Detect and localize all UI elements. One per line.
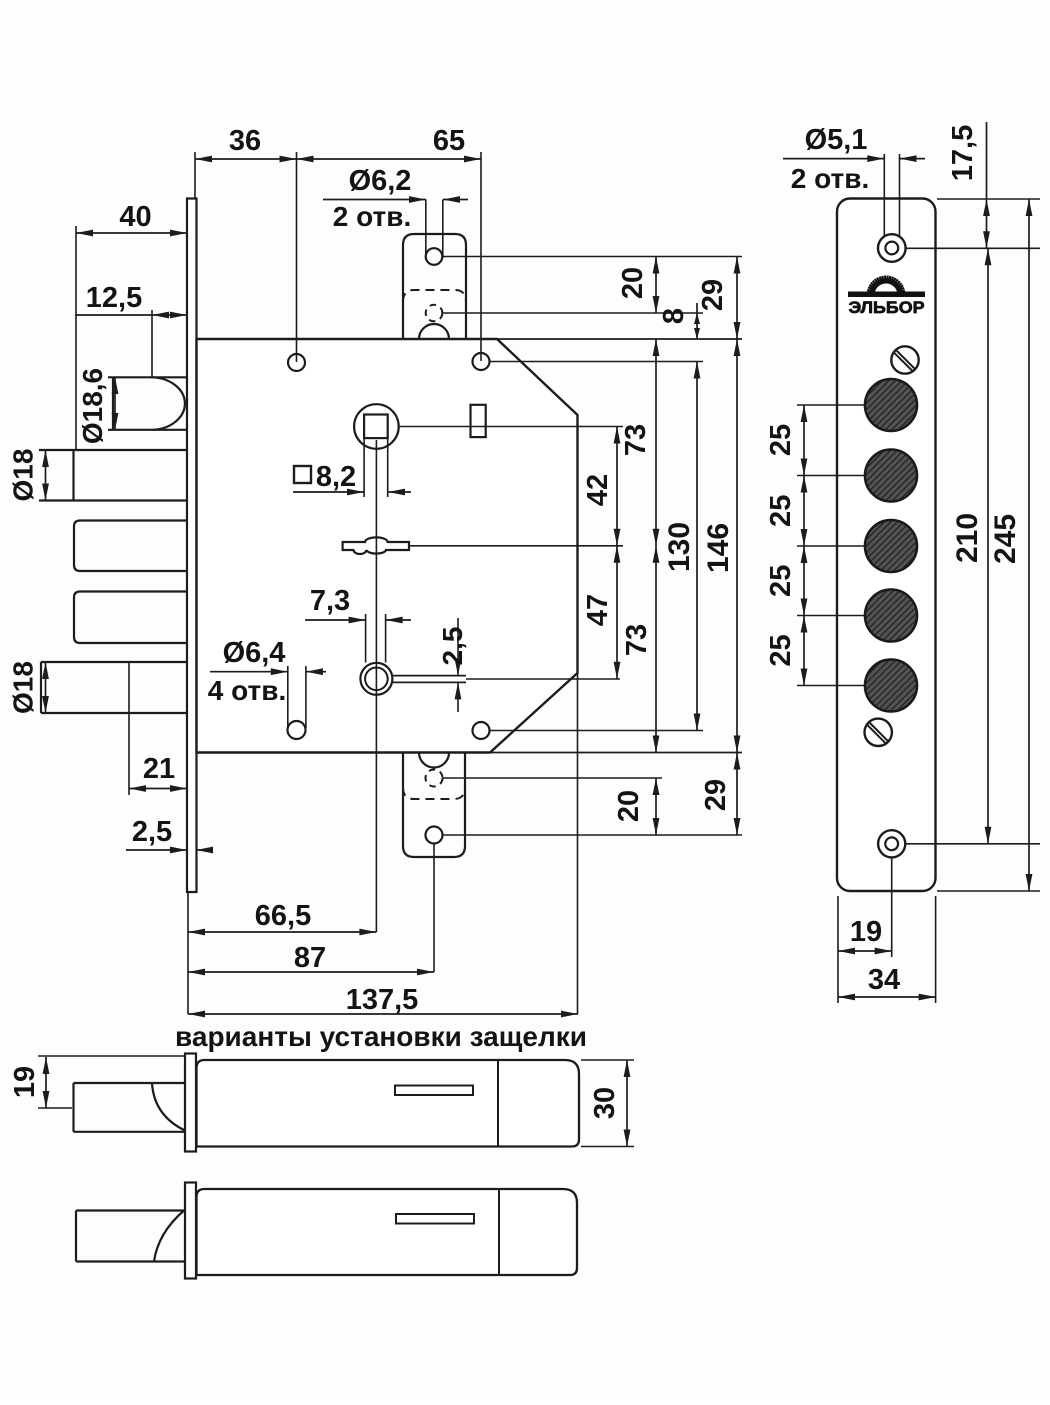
svg-text:17,5: 17,5 xyxy=(947,125,979,181)
dim 146 label xyxy=(702,523,735,573)
dim 210 label xyxy=(951,513,984,563)
bottom bracket hole (O6.2) xyxy=(426,827,443,844)
svg-text:8,2: 8,2 xyxy=(316,461,356,493)
dim O18.6 dimension line xyxy=(112,377,119,430)
dim 66.5 dimension line xyxy=(188,929,376,936)
svg-text:29: 29 xyxy=(700,779,732,811)
dim 21 label xyxy=(143,753,175,785)
variant1 latch bevel curve xyxy=(152,1083,186,1131)
svg-text:30: 30 xyxy=(589,1087,621,1119)
cylinder hole outer xyxy=(360,663,392,695)
chain 73/73 dimension line xyxy=(653,339,660,753)
bolt circle 4 (hatched) xyxy=(865,590,917,642)
svg-text:65: 65 xyxy=(433,125,465,157)
lever keyhole profile xyxy=(343,537,409,554)
svg-text:34: 34 xyxy=(868,964,900,996)
leader top dashed hole right xyxy=(443,312,704,314)
svg-text:7,3: 7,3 xyxy=(310,585,350,617)
leader keyhole to chain xyxy=(409,545,623,547)
svg-text:варианты установки защелки: варианты установки защелки xyxy=(175,1021,587,1052)
svg-text:36: 36 xyxy=(229,125,261,157)
variant1 lock body xyxy=(197,1060,580,1147)
dim 29 top dimension line xyxy=(734,257,741,340)
dim 42 label xyxy=(582,474,614,506)
dim 21 extension line xyxy=(128,662,130,795)
dim 12.5 dimension line xyxy=(75,312,187,319)
variant1 body partition line xyxy=(497,1060,499,1147)
dim 40 extension line xyxy=(75,226,77,450)
dim square-8.2 dimension line xyxy=(293,489,411,496)
faceplate (front view) xyxy=(837,199,936,892)
dim 130 dimension line xyxy=(694,362,701,731)
cylinder cam slot lines xyxy=(392,676,466,683)
svg-text:73: 73 xyxy=(620,424,652,456)
variant1 dim 30 label xyxy=(589,1087,621,1119)
dim 130 label xyxy=(663,522,696,572)
dim 7.3 extension lines xyxy=(366,614,386,663)
dim 73 top label xyxy=(620,424,652,456)
dim O5.1 leader line xyxy=(783,155,925,162)
dim O18 bottom dimension line xyxy=(42,662,49,713)
svg-text:137,5: 137,5 xyxy=(346,984,419,1016)
lock body outline xyxy=(197,339,578,753)
dim 65 extension line xyxy=(480,152,482,361)
svg-text:8: 8 xyxy=(658,308,690,324)
svg-text:19: 19 xyxy=(850,916,882,948)
bolt circle 2 (hatched) xyxy=(865,450,917,502)
variant1 body-top extension left xyxy=(38,1055,185,1057)
deadbolt 1 outline xyxy=(39,450,187,501)
dim 21 dimension line xyxy=(129,785,187,792)
variant2 latch bolt xyxy=(76,1211,188,1262)
variant1 latch axis extension xyxy=(38,1107,72,1109)
leader hole TR right xyxy=(490,361,704,363)
latch bolt (main view) outline xyxy=(108,377,188,430)
svg-text:210: 210 xyxy=(951,513,984,563)
bottom latch bracket plate xyxy=(403,753,465,858)
top bracket alt position edge (dashed) xyxy=(403,290,466,302)
latch bolt beak curve xyxy=(153,377,185,430)
dim 25 label y440 xyxy=(765,424,797,456)
dim 47 label xyxy=(582,594,614,626)
svg-text:40: 40 xyxy=(119,201,151,233)
svg-text:25: 25 xyxy=(765,424,797,456)
dim square-8.2 label xyxy=(316,461,356,493)
dim 36 extension lines xyxy=(195,152,297,362)
leader bottom dashed hole right xyxy=(443,777,663,779)
variant1 slot xyxy=(395,1086,473,1096)
mounting hole bottom-right (O6.4) xyxy=(473,722,490,739)
svg-text:Ø18: Ø18 xyxy=(8,661,39,714)
svg-text:Ø18,6: Ø18,6 xyxy=(77,368,108,444)
dim 36 dimension line xyxy=(195,156,297,163)
svg-text:Ø5,1: Ø5,1 xyxy=(805,124,868,156)
body top recess semicircle xyxy=(419,324,449,339)
dim 73 bottom label xyxy=(621,624,653,656)
dim O5.1 sublabel 2 holes xyxy=(791,163,869,194)
svg-text:25: 25 xyxy=(765,495,797,527)
dim O18.6 label xyxy=(77,368,108,444)
dim 29 bottom dimension line xyxy=(734,753,741,836)
bottom bracket alt hole (dashed) xyxy=(426,770,443,787)
faceplate (side view, left) xyxy=(187,199,197,893)
bottom fixing screw xyxy=(865,719,892,746)
svg-text:Ø6,2: Ø6,2 xyxy=(349,165,412,197)
plate bottom edge extension xyxy=(937,890,1040,892)
dim O6.2 extension lines xyxy=(426,200,443,259)
dim 245 dimension line xyxy=(1026,199,1033,891)
variant2 slot xyxy=(396,1214,474,1224)
dim 210 dimension line xyxy=(985,248,992,844)
deadbolt 4 outline (thrown) xyxy=(41,662,187,713)
dim 20 top dimension line xyxy=(653,257,660,314)
svg-text:42: 42 xyxy=(582,474,614,506)
dim O6.4 label xyxy=(223,637,286,669)
dim 25 label y650.5 xyxy=(765,634,797,666)
dim 2.5 dimension line xyxy=(126,847,213,854)
variant2 body partition line xyxy=(498,1189,500,1275)
svg-text:25: 25 xyxy=(765,565,797,597)
dim 34 dimension line xyxy=(838,994,936,1001)
dim 65 dimension line xyxy=(297,156,482,163)
top latch bracket plate xyxy=(403,234,466,339)
svg-text:2 отв.: 2 отв. xyxy=(333,201,411,232)
plate left edge extension down xyxy=(837,896,839,1003)
top fixing screw xyxy=(891,346,918,373)
dim 29 bottom label xyxy=(700,779,732,811)
dim O18 top label xyxy=(8,449,39,502)
dim 7.3 dimension line xyxy=(305,617,411,624)
left extension for bottom dims xyxy=(187,892,189,1014)
dim 87 dimension line xyxy=(188,969,434,976)
dim 2.5 label xyxy=(132,816,172,848)
dim 65 label xyxy=(433,125,465,157)
svg-text:146: 146 xyxy=(702,523,735,573)
variant1 faceplate strip xyxy=(185,1054,196,1152)
dim 25 label y510.8 xyxy=(765,495,797,527)
cylinder centerline to chain xyxy=(466,678,620,680)
svg-text:2,5: 2,5 xyxy=(132,816,172,848)
dim O6.2 label xyxy=(349,165,412,197)
svg-text:4 отв.: 4 отв. xyxy=(208,675,286,706)
plate bottom hole extension down xyxy=(891,858,893,957)
svg-text:20: 20 xyxy=(613,790,645,822)
body bottom recess semicircle xyxy=(419,753,449,768)
svg-text:245: 245 xyxy=(989,514,1022,564)
dim 34 label xyxy=(868,964,900,996)
svg-text:2,5: 2,5 xyxy=(437,627,468,666)
cylinder hole inner xyxy=(365,668,388,691)
variant2 faceplate strip xyxy=(185,1183,196,1279)
chain 42/47 dimension line xyxy=(614,427,621,679)
dim 2.5 slot arrows xyxy=(455,618,462,712)
caption latch variants xyxy=(175,1021,587,1052)
faceplate bottom screw hole ring xyxy=(878,830,905,857)
hatch pattern defs xyxy=(0,0,1,1)
dim 29 top label xyxy=(697,279,729,311)
bolt circle 1 (hatched) xyxy=(865,379,917,431)
dim 17.5 label xyxy=(947,125,979,181)
dim 87 label xyxy=(294,942,326,974)
dim 12.5 label xyxy=(86,282,142,314)
leader hole BR right xyxy=(490,730,704,732)
leader bottom bracket hole right xyxy=(443,834,743,836)
variant2 latch bevel curve xyxy=(154,1211,184,1262)
dim O6.2 sublabel 2 holes xyxy=(333,201,411,232)
top bracket alt hole (dashed) xyxy=(426,305,443,322)
dim square-8.2 square symbol xyxy=(294,466,311,483)
mounting hole top-left (O6.4) xyxy=(288,354,305,371)
ELBOR logo bar xyxy=(848,292,925,298)
dim 19 dimension line xyxy=(838,948,892,955)
body bottom edge extension line xyxy=(490,752,742,754)
body top edge extension line xyxy=(497,338,742,340)
mounting hole top-right (O6.4) xyxy=(473,353,490,370)
dim 20 bottom label xyxy=(613,790,645,822)
svg-text:87: 87 xyxy=(294,942,326,974)
bracket hole extension down xyxy=(433,844,435,972)
dim O5.1 label xyxy=(805,124,868,156)
dim 66.5 label xyxy=(255,900,311,932)
stop pin slot xyxy=(471,405,486,437)
svg-text:2 отв.: 2 отв. xyxy=(791,163,869,194)
dim 137.5 dimension line xyxy=(188,1011,578,1018)
dim 245 label xyxy=(989,514,1022,564)
svg-text:130: 130 xyxy=(663,522,696,572)
variant1 dim 19 label xyxy=(9,1066,41,1098)
plate bottom hole center extension xyxy=(905,843,1040,845)
body edge extension down xyxy=(577,673,579,1014)
variant1 latch bolt xyxy=(74,1083,187,1132)
svg-text:12,5: 12,5 xyxy=(86,282,142,314)
variant1 dim 30 line xyxy=(624,1060,631,1147)
dim 40 dimension line xyxy=(76,230,187,237)
bottom bracket alt position edge (dashed) xyxy=(403,787,465,799)
chain 25x4 dimension line xyxy=(797,405,866,686)
variant1 dim 30 extensions xyxy=(581,1060,634,1147)
dim O6.2 leader line xyxy=(323,196,468,203)
top bracket hole (O6.2) xyxy=(426,248,443,265)
dim O6.4 sublabel 4 holes xyxy=(208,675,286,706)
deadbolt 2 outline xyxy=(74,521,188,572)
dim 12.5 extension line xyxy=(151,310,153,377)
dim 7.3 label xyxy=(310,585,350,617)
variant2 lock body xyxy=(197,1189,578,1275)
svg-text:21: 21 xyxy=(143,753,175,785)
dim 2.5 slot label xyxy=(437,627,468,666)
spindle square 8.2 xyxy=(364,415,388,439)
dim O6.4 extension lines xyxy=(288,666,306,728)
svg-text:20: 20 xyxy=(617,267,649,299)
plate top hole center extension xyxy=(906,247,1040,249)
dim 8 label xyxy=(658,308,690,324)
plate right edge extension down xyxy=(935,896,937,1003)
dim 20 bottom dimension line xyxy=(653,778,660,835)
dim 40 label xyxy=(119,201,151,233)
bolt circle 5 (hatched) xyxy=(865,660,917,712)
leader spindle to chain xyxy=(399,426,623,428)
svg-text:19: 19 xyxy=(9,1066,41,1098)
dim 8 dimension line xyxy=(694,303,700,339)
dim 17.5 dimension line xyxy=(983,122,990,248)
handle spindle hole circle xyxy=(354,404,399,449)
ELBOR logo sunburst xyxy=(867,276,906,296)
svg-text:25: 25 xyxy=(765,634,797,666)
svg-text:ЭЛЬБОР: ЭЛЬБОР xyxy=(849,298,925,317)
faceplate top screw hole ring xyxy=(878,234,906,262)
dim O18 bottom label xyxy=(8,661,39,714)
svg-text:47: 47 xyxy=(582,594,614,626)
dim 146 dimension line xyxy=(734,339,741,753)
mounting hole bottom-left (O6.4) xyxy=(288,721,306,739)
svg-text:29: 29 xyxy=(697,279,729,311)
dim 36 label xyxy=(229,125,261,157)
svg-text:73: 73 xyxy=(621,624,653,656)
ELBOR logo text xyxy=(849,298,925,317)
vertical centerline through key parts xyxy=(375,440,377,932)
dim 20 top label xyxy=(617,267,649,299)
plate top edge extension xyxy=(937,198,1040,200)
dim 137.5 label xyxy=(346,984,419,1016)
variant1 dim 19 line xyxy=(43,1057,50,1108)
dim O18 top dimension line xyxy=(42,450,49,501)
dim O6.4 leader line xyxy=(210,668,326,675)
dim 19 label xyxy=(850,916,882,948)
svg-text:66,5: 66,5 xyxy=(255,900,311,932)
leader top bracket hole right xyxy=(442,256,742,258)
bolt circle 3 (hatched) xyxy=(865,520,917,572)
dim O5.1 extension lines xyxy=(884,154,899,236)
dim square-8.2 extension lines xyxy=(364,438,388,497)
svg-text:Ø6,4: Ø6,4 xyxy=(223,637,286,669)
dim 25 label y580.8 xyxy=(765,565,797,597)
deadbolt 3 outline xyxy=(74,592,188,644)
svg-text:Ø18: Ø18 xyxy=(8,449,39,502)
